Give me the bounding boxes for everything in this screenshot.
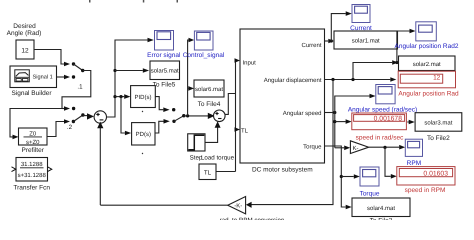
svg-text:To File3: To File3 [370,218,393,221]
svg-text:Angular speed (rad/sec): Angular speed (rad/sec) [348,106,417,113]
svg-text:31.1288: 31.1288 [21,161,43,168]
svg-text:.2: .2 [67,124,73,131]
svg-text:Desired: Desired [13,23,36,30]
svg-text:To File5: To File5 [153,81,176,88]
svg-text:.1: .1 [77,84,83,91]
svg-text:To File4: To File4 [198,101,221,108]
svg-text:To File2: To File2 [427,135,450,142]
svg-text:s+Z0: s+Z0 [26,139,40,146]
svg-text:Error signal: Error signal [147,52,181,59]
svg-text:s+31.1288: s+31.1288 [18,172,47,179]
svg-text:0.001678: 0.001678 [374,115,403,122]
svg-text:K-: K- [353,145,359,152]
svg-text:DC motor subsystem: DC motor subsystem [252,167,313,174]
svg-text:Prefilter: Prefilter [21,147,44,154]
svg-text:solar2.mat: solar2.mat [413,61,441,68]
svg-text:Torque: Torque [360,191,380,198]
svg-text:solar1.mat: solar1.mat [352,38,380,45]
svg-text:solar3.mat: solar3.mat [424,120,452,127]
svg-text:Control_signal: Control_signal [183,52,225,59]
svg-text:RPM: RPM [407,160,421,167]
svg-text:TL: TL [204,169,212,176]
svg-text:speed in rad/sec: speed in rad/sec [356,135,404,142]
svg-text:12: 12 [21,47,29,54]
svg-text:Current: Current [301,42,321,49]
svg-text:Angular displacement: Angular displacement [264,77,322,84]
svg-text:12: 12 [433,74,441,81]
svg-text:Transfer Fcn: Transfer Fcn [13,184,50,191]
svg-text:rad. to RPM conversion: rad. to RPM conversion [220,217,285,220]
svg-text:Signal 1: Signal 1 [33,74,53,81]
svg-text:solar6.mat: solar6.mat [195,86,223,93]
svg-text:Input: Input [243,59,257,66]
svg-text:Z0: Z0 [29,130,37,137]
svg-text:Angular speed: Angular speed [283,110,322,117]
svg-text:Load torque: Load torque [201,154,235,161]
svg-text:Angular position Rad: Angular position Rad [398,91,459,98]
svg-text:solar5.mat: solar5.mat [151,68,179,75]
svg-text:-K-: -K- [234,203,242,210]
svg-text:speed in RPM: speed in RPM [405,187,446,194]
svg-text:TL: TL [241,127,249,134]
svg-text:PID(s): PID(s) [135,94,152,101]
svg-text:Torque: Torque [303,143,322,150]
svg-text:PD(s): PD(s) [136,131,151,138]
svg-text:Angle (Rad): Angle (Rad) [7,30,42,37]
svg-text:Angular position Rad2: Angular position Rad2 [395,43,459,50]
svg-text:Signal Builder: Signal Builder [11,90,52,97]
svg-text:0.01603: 0.01603 [423,171,448,178]
svg-text:solar4.mat: solar4.mat [367,205,395,212]
